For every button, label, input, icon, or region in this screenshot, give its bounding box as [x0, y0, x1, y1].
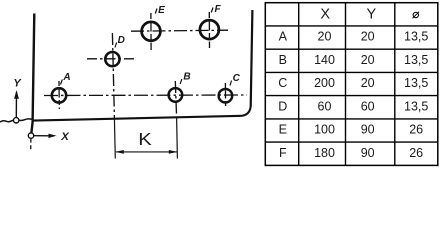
svg-text:A: A — [279, 30, 288, 44]
centerline vertical through C — [224, 83, 226, 107]
svg-text:F: F — [214, 4, 221, 15]
dimension extension line (D) — [113, 118, 116, 159]
hole D — [105, 52, 119, 66]
wavy break line (bottom edge extension left) — [0, 119, 33, 122]
Y axis line — [15, 93, 17, 118]
table row line 6 — [265, 141, 438, 143]
dimension K left arrowhead — [115, 150, 124, 154]
svg-text:B: B — [183, 71, 190, 82]
svg-text:C: C — [278, 76, 287, 90]
svg-text:D: D — [278, 99, 287, 113]
svg-text:60: 60 — [318, 99, 332, 113]
svg-text:140: 140 — [314, 53, 335, 67]
centerline vertical through A — [58, 81, 60, 109]
label F + leader tick — [211, 4, 221, 15]
centerline vertical through F — [208, 12, 210, 48]
table column divider 3 — [394, 3, 396, 166]
table row C — [278, 76, 428, 90]
svg-text:Y: Y — [366, 7, 376, 23]
hole E — [142, 22, 161, 41]
table row F — [279, 146, 423, 160]
svg-text:C: C — [233, 73, 241, 84]
table column divider 2 — [345, 3, 347, 166]
svg-text:20: 20 — [361, 30, 375, 44]
centerline vertical through D (K extension) — [112, 33, 114, 118]
table header diameter symbol — [413, 12, 420, 19]
table column divider 1 — [298, 3, 300, 166]
svg-text:E: E — [279, 123, 287, 137]
node X-origin circle — [28, 133, 33, 138]
table row B — [279, 53, 429, 67]
svg-text:90: 90 — [361, 146, 375, 160]
svg-text:13,5: 13,5 — [404, 30, 428, 44]
label B + leader tick — [180, 71, 190, 84]
centerline horizontal through D — [87, 58, 137, 60]
svg-text:Y: Y — [13, 77, 22, 89]
svg-text:26: 26 — [409, 123, 423, 137]
table row E — [279, 123, 424, 137]
svg-text:100: 100 — [314, 123, 335, 137]
table row line 1 — [265, 25, 438, 27]
hole A — [52, 88, 66, 102]
svg-text:180: 180 — [314, 146, 335, 160]
svg-text:20: 20 — [318, 30, 332, 44]
label E + leader tick — [155, 5, 165, 16]
table row line 3 — [265, 71, 438, 73]
dimension K line — [116, 151, 177, 153]
table row line 5 — [265, 118, 438, 120]
X axis line — [34, 135, 50, 137]
svg-text:26: 26 — [409, 146, 423, 160]
hole C — [219, 89, 233, 103]
svg-text:20: 20 — [361, 53, 375, 67]
plate bottom edge — [33, 116, 242, 121]
svg-text:90: 90 — [361, 123, 375, 137]
X-datum dashed tail below origin — [30, 139, 32, 150]
svg-text:200: 200 — [314, 76, 335, 90]
centerline vertical through B (K extension) — [175, 81, 176, 117]
centerline vertical through E — [150, 13, 152, 50]
table outer border — [265, 3, 438, 166]
plate bottom-right rounded corner — [242, 107, 251, 116]
centerline horizontal through E F — [131, 30, 228, 31]
label C + leader tick — [230, 73, 241, 86]
table row line 2 — [265, 48, 438, 50]
svg-text:E: E — [158, 5, 165, 16]
svg-text:20: 20 — [361, 76, 375, 90]
svg-text:13,5: 13,5 — [404, 99, 428, 113]
plate right edge — [251, 10, 253, 107]
table row A — [279, 30, 429, 44]
label A + leader tick — [61, 72, 71, 85]
dimension extension line (B) — [176, 117, 179, 159]
svg-text:13,5: 13,5 — [404, 76, 428, 90]
table row line 4 — [265, 95, 438, 97]
plate left edge — [31, 14, 34, 134]
node Y-origin circle — [14, 118, 19, 123]
svg-text:B: B — [279, 53, 287, 67]
Y axis arrowhead — [14, 90, 19, 99]
centerline horizontal through A B C — [44, 94, 247, 97]
svg-text:60: 60 — [361, 99, 375, 113]
dimension K right arrowhead — [169, 150, 178, 154]
label D + leader tick — [115, 35, 125, 48]
svg-text:D: D — [118, 35, 125, 46]
hole F — [200, 20, 219, 39]
table row D — [278, 99, 428, 113]
svg-text:K: K — [138, 129, 152, 149]
svg-text:X: X — [60, 131, 70, 143]
svg-text:X: X — [320, 7, 330, 23]
hole B — [169, 88, 183, 102]
svg-text:13,5: 13,5 — [404, 53, 428, 67]
X axis arrowhead — [49, 134, 57, 138]
svg-text:A: A — [62, 72, 70, 83]
svg-text:F: F — [279, 146, 287, 160]
